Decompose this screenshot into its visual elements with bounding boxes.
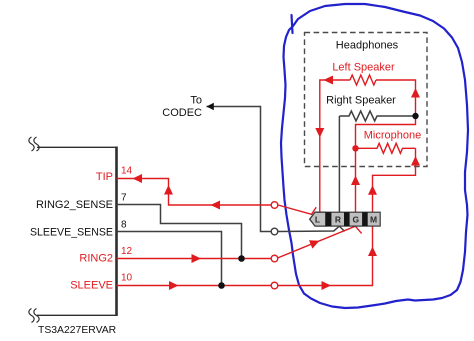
- svg-text:Microphone: Microphone: [364, 130, 421, 142]
- svg-text:G: G: [352, 215, 359, 225]
- svg-text:14: 14: [121, 166, 133, 177]
- svg-text:CODEC: CODEC: [162, 107, 202, 119]
- svg-text:R: R: [335, 215, 341, 225]
- svg-text:Headphones: Headphones: [336, 40, 399, 52]
- svg-text:10: 10: [121, 273, 133, 284]
- svg-text:RING2_SENSE: RING2_SENSE: [36, 199, 113, 211]
- svg-text:M: M: [370, 215, 377, 225]
- svg-text:TIP: TIP: [96, 171, 113, 183]
- svg-text:TS3A227ERVAR: TS3A227ERVAR: [38, 325, 117, 336]
- svg-text:Right Speaker: Right Speaker: [326, 95, 396, 107]
- svg-text:SLEEVE_SENSE: SLEEVE_SENSE: [30, 227, 113, 239]
- svg-text:L: L: [315, 215, 320, 225]
- svg-text:Left Speaker: Left Speaker: [332, 62, 395, 74]
- svg-text:To: To: [190, 95, 202, 107]
- svg-text:SLEEVE: SLEEVE: [70, 280, 113, 292]
- svg-text:7: 7: [121, 193, 127, 204]
- svg-text:RING2: RING2: [79, 253, 113, 265]
- svg-text:8: 8: [121, 220, 127, 231]
- svg-text:12: 12: [121, 246, 133, 257]
